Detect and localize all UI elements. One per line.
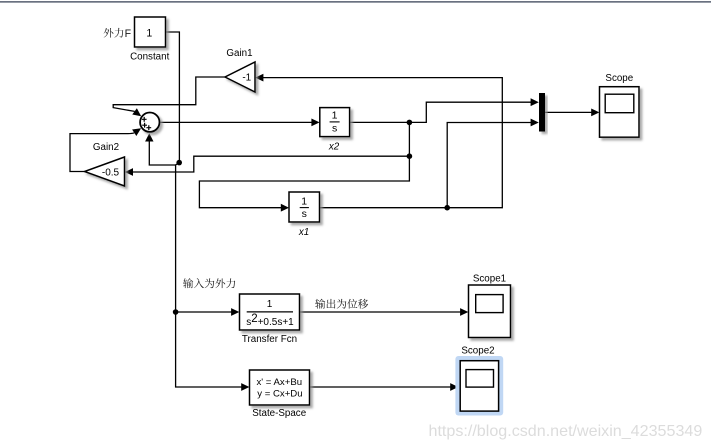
scope1 block <box>469 285 511 338</box>
mux <box>539 93 545 132</box>
svg-text:-1: -1 <box>242 73 251 84</box>
constant block <box>135 17 166 47</box>
svg-text:State-Space: State-Space <box>252 408 306 419</box>
state-space block <box>250 370 310 405</box>
svg-text:1: 1 <box>332 110 338 122</box>
sum junction <box>140 113 159 132</box>
svg-text:-0.5: -0.5 <box>102 167 120 178</box>
svg-text:Scope1: Scope1 <box>473 274 506 285</box>
gain G1 <box>225 62 255 92</box>
transfer fcn block <box>240 294 300 330</box>
node: dot at Transfer Fcn branch <box>173 309 179 315</box>
wire: Constant output down <box>166 32 245 387</box>
scope2 selection highlight <box>455 356 503 416</box>
svg-text:Constant: Constant <box>130 52 169 63</box>
svg-text:s: s <box>302 208 307 220</box>
svg-text:1: 1 <box>146 27 152 39</box>
integrator x1 <box>289 192 320 222</box>
wire: x2 output to Mux input 1 <box>350 102 534 122</box>
wire: Transfer Fcn to Scope1 <box>300 311 463 313</box>
annotation 外力F <box>104 28 114 38</box>
annotation input <box>183 278 193 288</box>
wire: branch to Mux input 2 <box>447 123 533 208</box>
wire: branch to Transfer Fcn <box>176 311 234 313</box>
window top border <box>0 1 711 3</box>
node: x2 output dot <box>407 120 413 126</box>
scope2 block <box>460 361 498 411</box>
wire: Mux output to Scope <box>545 111 594 113</box>
wire: x1 output to Gain1 input <box>261 78 503 208</box>
integrator x2 <box>320 108 350 137</box>
wire: Gain1 output to Sum <box>113 77 225 111</box>
svg-text:https://blog.csdn.net/weixin_4: https://blog.csdn.net/weixin_42355349 <box>429 422 703 440</box>
svg-text:x' = Ax+Bu: x' = Ax+Bu <box>257 377 303 388</box>
svg-text:s: s <box>332 122 337 134</box>
svg-text:y = Cx+Du: y = Cx+Du <box>257 388 302 399</box>
node: x1 output dot <box>444 205 450 211</box>
svg-text:Scope2: Scope2 <box>461 346 494 357</box>
svg-text:x1: x1 <box>298 227 309 238</box>
wire: Gain2 output to Sum <box>70 133 134 172</box>
wire: branch to Sum bottom input <box>149 141 175 165</box>
wire: feedback to Gain2 input <box>131 156 410 172</box>
scope block <box>600 87 640 138</box>
svg-text:Gain1: Gain1 <box>226 48 252 59</box>
gain G2 <box>85 157 125 186</box>
wire: x2 down to x1 input <box>199 122 409 207</box>
wire: State-Space to Scope2 <box>310 386 453 388</box>
node: branch dot on constant wire <box>176 160 182 166</box>
svg-text:Scope: Scope <box>605 73 633 84</box>
svg-text:F: F <box>125 28 132 40</box>
svg-text:1: 1 <box>267 299 273 310</box>
annotation output <box>315 299 325 309</box>
svg-text:1: 1 <box>301 196 307 208</box>
wire: Sum output to x2 <box>159 121 314 123</box>
svg-text:x2: x2 <box>328 142 340 153</box>
svg-text:Gain2: Gain2 <box>93 142 119 153</box>
node: dot on x2 down wire <box>407 153 413 159</box>
svg-text:Transfer Fcn: Transfer Fcn <box>242 334 297 345</box>
